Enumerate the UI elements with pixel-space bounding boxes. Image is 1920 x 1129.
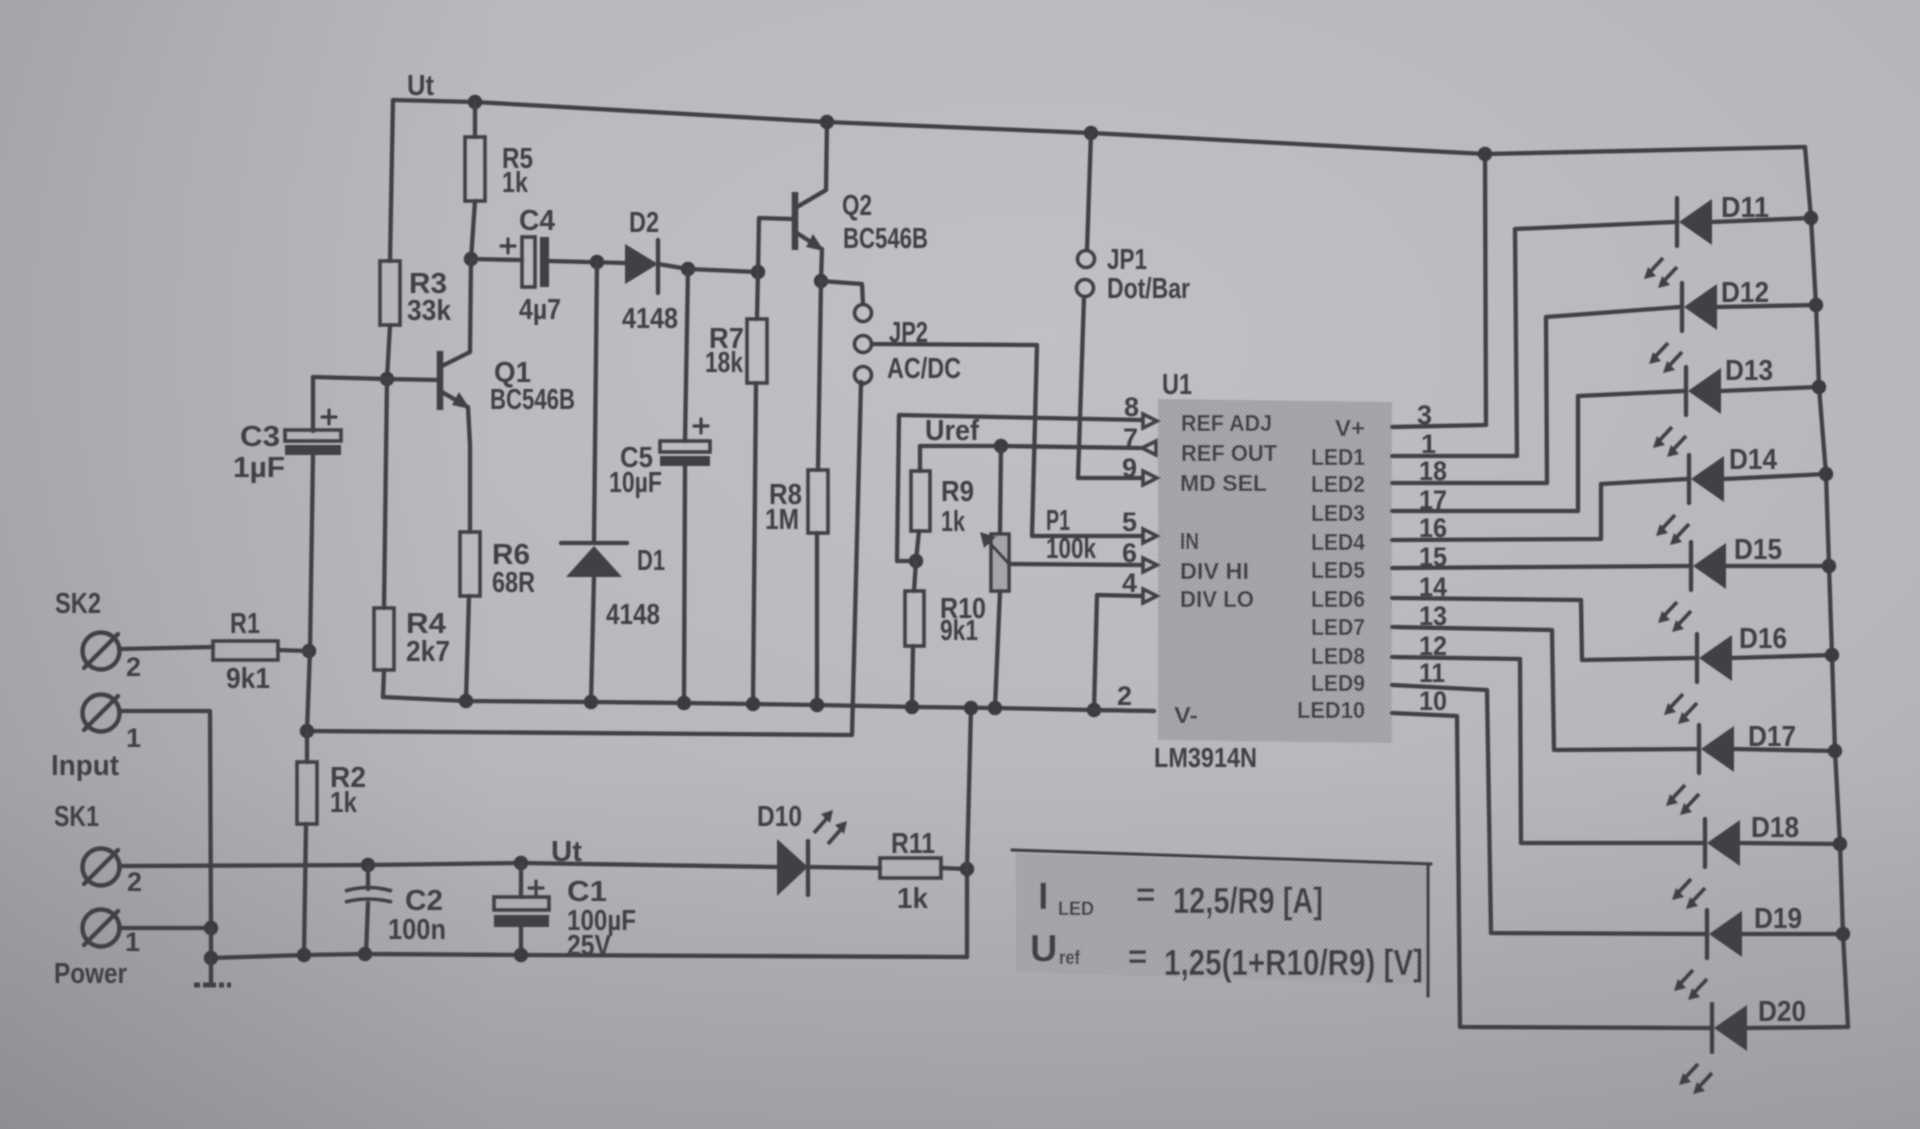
svg-text:JP1: JP1 <box>1107 244 1147 276</box>
svg-text:LED9: LED9 <box>1311 670 1365 696</box>
svg-text:Q2: Q2 <box>842 190 872 222</box>
diode D18 LED <box>1703 819 1707 867</box>
wire R5 to collector junction <box>471 201 475 259</box>
wire R11 to node <box>941 868 967 869</box>
D15 light arrows <box>1663 602 1691 626</box>
wire C4 to D2 <box>549 261 625 263</box>
wire junction to D1 <box>594 262 597 542</box>
wire base junction to R4 <box>384 379 387 608</box>
node R1/C3 junction <box>302 644 316 658</box>
wire V- pin 2 stub <box>1094 710 1154 711</box>
svg-text:LED6: LED6 <box>1311 586 1365 612</box>
svg-text:Power: Power <box>54 958 127 990</box>
svg-text:LED10: LED10 <box>1297 697 1365 723</box>
wire D19 anode to bus <box>1742 932 1843 936</box>
node R7 rail junction <box>746 697 760 711</box>
svg-text:D1: D1 <box>637 545 665 577</box>
svg-text:1k: 1k <box>502 167 529 199</box>
wire JP1 to MD SEL pin 9 <box>1078 297 1142 478</box>
svg-text:C4: C4 <box>519 205 555 237</box>
wire R8 to V- rail <box>815 533 819 705</box>
svg-text:33k: 33k <box>407 295 452 327</box>
pin 4 arrow <box>1143 589 1157 603</box>
svg-text:25V: 25V <box>567 930 612 962</box>
svg-text:SK1: SK1 <box>54 801 99 833</box>
svg-text:R9: R9 <box>941 476 974 508</box>
wire D10 to R11 <box>808 867 880 868</box>
connector SK1 terminal 1 <box>83 910 120 947</box>
svg-text:13: 13 <box>1419 601 1447 631</box>
resistor R7 <box>747 319 767 383</box>
resistor R11 <box>880 858 941 878</box>
pin 13 LED7 net <box>1392 627 1697 750</box>
wire SK2-1 down to SK1-1 <box>119 711 211 928</box>
diode D19 LED <box>1705 910 1709 958</box>
wire D20 anode to bus <box>1747 1027 1848 1028</box>
D18 light arrows <box>1677 879 1705 903</box>
svg-text:=: = <box>1136 876 1155 913</box>
svg-text:LM3914N: LM3914N <box>1154 742 1257 773</box>
svg-text:C1: C1 <box>567 876 607 908</box>
svg-text:3: 3 <box>1417 400 1432 430</box>
wire R4 to V- rail <box>383 670 384 697</box>
ground <box>209 958 213 983</box>
wire emitter to JP2 <box>821 281 863 304</box>
svg-text:R1: R1 <box>230 608 260 640</box>
svg-text:4µ7: 4µ7 <box>519 294 561 326</box>
diode D17 LED <box>1697 725 1701 773</box>
wire D2 to C5 junction <box>658 264 688 269</box>
svg-text:BC546B: BC546B <box>490 384 575 416</box>
wire D16 anode to bus <box>1732 655 1832 658</box>
wire D13 anode to bus <box>1721 387 1819 391</box>
pin 15 LED5 net <box>1392 566 1689 568</box>
svg-text:Ut: Ut <box>407 70 434 102</box>
diode D2 <box>625 244 658 284</box>
D16 light arrows <box>1669 694 1697 718</box>
svg-text:4148: 4148 <box>622 303 678 335</box>
node R5/C4/Q1 collector junction <box>464 252 478 266</box>
wire Q2 base <box>758 218 792 272</box>
wire R6 to V- rail <box>466 596 469 701</box>
pin 16 LED4 net <box>1392 479 1687 540</box>
capacitor C1 <box>519 863 523 897</box>
node P1 rail junction <box>988 701 1002 715</box>
wire junction to V- tee <box>307 651 310 731</box>
wire Q2 emitter down <box>821 249 822 281</box>
svg-text:5: 5 <box>1122 507 1137 537</box>
svg-text:1: 1 <box>125 927 140 957</box>
svg-text:LED: LED <box>1058 899 1094 920</box>
D13 light arrows <box>1658 427 1686 451</box>
svg-text:Input: Input <box>51 750 119 782</box>
wire R3 to Q1 base junction <box>387 325 390 379</box>
svg-text:2: 2 <box>127 867 142 897</box>
node ground rail junction <box>204 951 218 965</box>
resistor R5 <box>465 137 485 201</box>
wire R9 to junction <box>916 531 919 561</box>
svg-text:DIV LO: DIV LO <box>1180 586 1254 612</box>
resistor R4 <box>374 608 394 670</box>
node riser rail junction <box>964 701 978 715</box>
svg-text:V+: V+ <box>1335 415 1365 441</box>
diode D15 LED <box>1689 542 1693 590</box>
D19 light arrows <box>1679 970 1707 994</box>
svg-text:18k: 18k <box>705 347 744 379</box>
svg-text:17: 17 <box>1419 485 1447 515</box>
formula box <box>1016 853 1429 985</box>
svg-text:LED5: LED5 <box>1311 557 1365 583</box>
wire Q1 emitter to R6 <box>468 407 470 532</box>
svg-text:DIV HI: DIV HI <box>1180 558 1249 584</box>
svg-text:D2: D2 <box>629 207 659 239</box>
wire D18 anode to bus <box>1740 843 1840 844</box>
resistor R6 <box>460 532 480 596</box>
node R9/R10 junction <box>909 554 923 568</box>
svg-text:D15: D15 <box>1734 534 1782 566</box>
svg-text:REF ADJ: REF ADJ <box>1181 410 1272 436</box>
diode D11 LED <box>1675 198 1679 246</box>
wire Q2 collector from Ut rail <box>826 122 827 190</box>
svg-text:LED2: LED2 <box>1311 471 1365 497</box>
pin 3 V+ net <box>1392 154 1486 427</box>
svg-text:15: 15 <box>1419 542 1447 572</box>
svg-text:2: 2 <box>126 652 141 682</box>
wire C3 to R1 junction <box>310 455 313 651</box>
wire Ut to R5 <box>473 102 477 137</box>
D14 light arrows <box>1661 515 1689 539</box>
svg-text:Uref: Uref <box>925 415 979 447</box>
D20 light arrows <box>1684 1064 1712 1088</box>
wire P1 bottom to V- rail <box>995 591 1000 708</box>
svg-text:12: 12 <box>1419 631 1447 661</box>
svg-text:Dot/Bar: Dot/Bar <box>1107 273 1190 305</box>
svg-text:1,25(1+R10/R9) [V]: 1,25(1+R10/R9) [V] <box>1164 942 1423 983</box>
jumper JP1 <box>1078 251 1095 268</box>
resistor R2 <box>297 762 317 824</box>
wire D15 anode to bus <box>1726 564 1829 568</box>
svg-text:1: 1 <box>1421 429 1436 459</box>
potentiometer P1 <box>991 534 1009 591</box>
D11 light arrows <box>1649 258 1677 282</box>
svg-text:6: 6 <box>1122 538 1137 568</box>
diode D16 LED <box>1695 634 1699 682</box>
node R7/Q2 base junction <box>751 265 765 279</box>
node D1 junction <box>590 255 604 269</box>
node DIV LO rail junction <box>1087 703 1101 717</box>
svg-text:9: 9 <box>1122 453 1137 483</box>
svg-text:1µF: 1µF <box>233 452 285 484</box>
node D1 rail junction <box>584 695 598 709</box>
svg-text:C3: C3 <box>240 421 280 453</box>
svg-text:LED1: LED1 <box>1311 444 1365 470</box>
wire D1 to V- rail <box>591 577 594 702</box>
wire DIV LO pin 4 net <box>1094 595 1142 710</box>
wire R7 vertical top <box>757 272 758 319</box>
svg-text:12,5/R9 [A]: 12,5/R9 [A] <box>1173 880 1323 921</box>
wire SK2-2 to R1 <box>119 647 213 649</box>
D12 light arrows <box>1654 343 1682 367</box>
svg-text:D16: D16 <box>1739 623 1787 655</box>
node R6 rail junction <box>459 694 473 708</box>
node C1 bottom junction <box>514 948 528 962</box>
node R10 rail junction <box>905 700 919 714</box>
wire P1 top <box>1000 446 1001 534</box>
svg-text:IN: IN <box>1180 528 1199 554</box>
node P1 top junction <box>994 439 1008 453</box>
wire R9 top <box>918 446 922 471</box>
svg-text:=: = <box>1128 938 1147 975</box>
diode D1 <box>561 541 627 545</box>
svg-text:4: 4 <box>1122 568 1137 598</box>
pin 17 LED3 net <box>1392 391 1684 511</box>
diode D14 LED <box>1687 455 1691 503</box>
wire right LED bus <box>1805 147 1848 1027</box>
svg-text:R11: R11 <box>891 828 935 860</box>
svg-text:D18: D18 <box>1751 812 1799 844</box>
wire D11 anode to bus <box>1712 218 1811 222</box>
node Q2 emitter junction <box>814 274 828 288</box>
svg-text:C2: C2 <box>405 885 443 917</box>
svg-text:1k: 1k <box>330 787 358 819</box>
svg-text:AC/DC: AC/DC <box>887 353 961 385</box>
svg-text:REF OUT: REF OUT <box>1181 440 1278 466</box>
node R11/ground riser junction <box>960 862 974 876</box>
wire Uref pin 7 net <box>920 446 1141 448</box>
wire junction to R10 <box>914 561 916 591</box>
D17 light arrows <box>1671 785 1699 809</box>
svg-text:100k: 100k <box>1046 533 1097 565</box>
D10 light arrows <box>814 817 842 844</box>
svg-text:10µF: 10µF <box>609 467 662 499</box>
wire D14 anode to bus <box>1724 474 1826 479</box>
wire SK1-2 Ut supply <box>119 863 777 867</box>
resistor R10 <box>905 591 924 646</box>
svg-text:U1: U1 <box>1162 369 1192 401</box>
svg-text:9k1: 9k1 <box>226 663 270 695</box>
svg-text:1M: 1M <box>765 504 799 536</box>
wire Ut left drop to R3 <box>390 100 393 261</box>
svg-text:D10: D10 <box>757 801 802 833</box>
wire REF ADJ pin 8 net <box>897 415 1142 561</box>
resistor R3 <box>380 261 400 325</box>
capacitor C4 <box>522 237 535 287</box>
svg-text:LED3: LED3 <box>1311 500 1365 526</box>
node SK1-1 junction <box>204 921 218 935</box>
node Q2 collector junction on rail <box>820 115 834 129</box>
wire Q1 collector <box>470 259 471 352</box>
svg-text:1k: 1k <box>897 883 929 915</box>
svg-text:V-: V- <box>1174 702 1198 728</box>
diode D13 LED <box>1684 367 1688 415</box>
svg-text:LED8: LED8 <box>1311 643 1365 669</box>
node R2 bottom junction <box>297 948 311 962</box>
node Ut top rail <box>393 100 1805 154</box>
wire V- rail <box>383 697 1154 711</box>
svg-text:SK2: SK2 <box>55 588 101 620</box>
node C5 rail junction <box>677 696 691 710</box>
node C2 top junction <box>361 858 375 872</box>
resistor R1 <box>213 641 278 660</box>
op-amp U1 LM3914N body (shaded IC box) <box>1158 399 1392 743</box>
pin 11 LED9 net <box>1392 685 1705 934</box>
wire P1 wiper to DIV HI pin 6 <box>1009 564 1142 565</box>
wire JP2 bottom to input ground <box>861 382 863 384</box>
pin 12 LED8 net <box>1392 657 1703 843</box>
svg-text:68R: 68R <box>492 567 535 599</box>
node C1 top junction <box>514 856 528 870</box>
node JP1 top junction <box>1084 126 1098 140</box>
svg-text:14: 14 <box>1419 572 1447 602</box>
svg-text:16: 16 <box>1419 513 1447 543</box>
svg-text:D14: D14 <box>1729 444 1777 476</box>
diode D12 LED <box>1680 283 1684 331</box>
wire to R7 junction <box>688 269 758 272</box>
wire D12 anode to bus <box>1717 305 1816 307</box>
diode D20 LED <box>1710 1004 1714 1052</box>
wire SK1-1 to ground node <box>119 926 211 930</box>
wire R7 to V- rail <box>753 383 756 704</box>
resistor R9 <box>911 471 930 531</box>
node V- tee <box>300 724 314 738</box>
pin 1 LED1 net <box>1392 222 1675 456</box>
wire input ground (lower horizontal) <box>307 382 861 735</box>
wire riser to V- rail <box>967 708 971 869</box>
svg-text:BC546B: BC546B <box>843 223 928 255</box>
connector SK1 terminal 2 <box>83 849 120 886</box>
wire bottom ground rail <box>211 869 967 958</box>
wire D17 anode to bus <box>1734 749 1835 751</box>
svg-text:D20: D20 <box>1758 996 1806 1028</box>
svg-text:10: 10 <box>1419 686 1447 716</box>
svg-text:LED7: LED7 <box>1311 614 1365 640</box>
jumper JP2 <box>855 305 872 322</box>
node R8 rail junction <box>810 698 824 712</box>
svg-text:7: 7 <box>1123 423 1138 453</box>
wire emitter to R8 <box>818 281 821 470</box>
wire JP2 middle to IN pin <box>872 344 1142 536</box>
svg-text:D13: D13 <box>1725 355 1773 387</box>
wire Q1 base <box>313 377 438 380</box>
svg-text:1k: 1k <box>941 506 966 538</box>
pin 14 LED6 net <box>1392 598 1695 660</box>
svg-text:4148: 4148 <box>606 599 660 631</box>
capacitor C3 <box>311 377 315 431</box>
wire junction to C4 <box>471 259 522 260</box>
node Ut/R5 junction <box>468 95 482 109</box>
wire C5 to V- rail <box>684 466 685 703</box>
svg-text:18: 18 <box>1419 456 1447 486</box>
svg-text:ref: ref <box>1059 948 1081 969</box>
wire down to rail <box>209 928 213 958</box>
svg-text:8: 8 <box>1124 392 1139 422</box>
svg-text:100n: 100n <box>388 914 446 946</box>
wire C5 vertical <box>685 269 688 441</box>
pin 18 LED2 net <box>1392 307 1680 483</box>
wire JP1 vertical <box>1087 133 1091 250</box>
connector SK2 terminal 1 <box>83 695 120 732</box>
svg-text:D19: D19 <box>1754 903 1802 935</box>
pin 10 LED10 net <box>1392 713 1710 1028</box>
pin 5 arrow <box>1143 529 1157 543</box>
node C5 junction <box>681 262 695 276</box>
connector SK2 terminal 2 <box>83 633 120 670</box>
svg-text:2k7: 2k7 <box>406 636 450 668</box>
svg-text:Ut: Ut <box>551 836 582 868</box>
svg-text:11: 11 <box>1419 658 1445 688</box>
svg-text:MD SEL: MD SEL <box>1180 470 1267 496</box>
svg-text:2: 2 <box>1117 681 1132 711</box>
pin 8 arrow <box>1143 414 1157 428</box>
wire R2 to ground rail <box>304 824 306 955</box>
capacitor C2 <box>366 865 370 889</box>
wire R10 to V- rail <box>912 646 913 707</box>
svg-text:U: U <box>1030 928 1057 970</box>
capacitor C5 <box>660 441 710 452</box>
pin 6 arrow <box>1143 558 1157 572</box>
svg-text:9k1: 9k1 <box>940 615 978 647</box>
resistor R8 <box>808 470 828 533</box>
transistor Q1 <box>437 351 444 410</box>
diode D10 LED <box>777 839 808 896</box>
node Q1 base junction <box>380 372 394 386</box>
svg-text:LED4: LED4 <box>1311 529 1365 555</box>
svg-text:1: 1 <box>126 723 141 753</box>
svg-text:I: I <box>1038 876 1049 918</box>
wire R1 to junction <box>278 650 309 651</box>
transistor Q2 <box>792 192 799 250</box>
node C2 bottom junction <box>358 947 372 961</box>
pin 9 arrow <box>1143 471 1157 485</box>
wire tee to R2 <box>305 731 309 762</box>
pin 7 arrow <box>1142 441 1156 455</box>
